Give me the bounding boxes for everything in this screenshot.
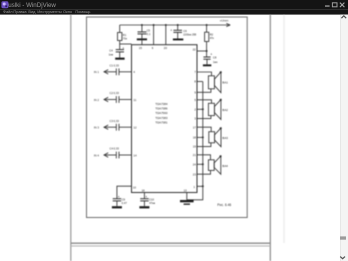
wire: R1 to C7 node [119,41,121,50]
capacitor C4 (1uF) [116,50,124,52]
svg-text:Файл: Файл [3,9,13,14]
wire: pin 22 stub [197,50,207,52]
wire: C6 to ground [177,32,179,38]
IC type list [155,102,168,124]
svg-text:24: 24 [193,162,197,166]
svg-text:R2: R2 [210,33,214,37]
pin 10 branch [117,186,132,206]
resistor R1 [118,33,122,41]
svg-text:+: + [118,195,120,199]
wire pin8 to bus [197,81,203,83]
svg-text:C4 0,33: C4 0,33 [110,147,120,151]
right side pin numbers [193,70,197,176]
svg-text:IN 4: IN 4 [94,153,100,157]
wire pin13 down [186,193,188,200]
svg-text:Помощь: Помощь [75,9,90,14]
scrollbar thumb [340,236,346,239]
svg-text:+Uпит.: +Uпит. [220,19,230,23]
wire pin18 to bus [197,136,203,138]
svg-text:C4: C4 [109,49,113,53]
svg-text:0,47: 0,47 [122,201,128,205]
speaker BA4 wiring [197,155,211,174]
minimize button [325,5,330,6]
ground (C10) [139,206,149,208]
junction dots on rail [141,24,208,26]
close button [340,3,345,8]
pin numbers top [139,46,196,51]
speaker BA3 wiring [197,127,211,146]
svg-text:23: 23 [193,172,197,176]
capacitor C2 [115,96,117,103]
svg-text:IN 3: IN 3 [94,126,100,130]
wire: C6 riser [177,25,179,30]
capacitor C10 [140,199,149,201]
speaker BA1 wiring [197,72,212,92]
page 2 top border [71,245,270,247]
svg-text:IN 2: IN 2 [94,98,100,102]
pin 16 branch [143,193,145,199]
input IN3 [104,124,132,131]
svg-text:22: 22 [193,47,197,51]
input IN2 [104,96,132,103]
ground (C7) [115,58,124,60]
wire IN4 [104,154,116,156]
svg-text:11: 11 [133,98,136,102]
input IN1 [104,68,132,75]
wire C9 to ground [116,201,118,206]
svg-text:TDA7560: TDA7560 [155,111,168,115]
svg-text:C2 0,33: C2 0,33 [110,91,120,95]
node (pin22/R2/C8) [206,50,208,52]
ground (main) [180,200,194,202]
capacitor C5 [138,32,147,34]
wire pin9 to BA1 bottom [197,89,211,93]
resistor R2 [205,32,209,41]
wire pin3 to BA2 bottom [197,116,211,119]
svg-text:C10: C10 [149,197,154,201]
wire pin5 to BA2 top [197,100,212,104]
wire pin2 to bus [197,108,203,110]
wire: +U supply rail [120,24,230,26]
svg-text:17: 17 [193,125,197,129]
speaker BA3 [209,128,221,147]
scrollbar down arrow [340,257,345,259]
svg-text:C6: C6 [183,29,187,33]
svg-text:C9: C9 [122,197,126,201]
svg-text:14: 14 [133,153,137,157]
page right border [269,15,271,261]
svg-text:13: 13 [184,189,188,193]
svg-text:47мк: 47мк [149,201,156,205]
capacitor C4 [115,152,117,159]
svg-text:C3 0,33: C3 0,33 [110,119,120,123]
wire pin1 to ground [187,186,203,200]
svg-text:TDA7386: TDA7386 [155,107,168,111]
wire: R2 riser [206,25,208,32]
capacitor C8 [203,57,210,59]
document view area [71,15,284,261]
svg-text:+: + [170,28,172,32]
scrollbar track [340,15,348,261]
svg-text:Вид: Вид [28,9,36,14]
wire IN1 [104,71,116,73]
capacitor C1 [115,68,117,75]
wire: C5 riser [141,25,143,32]
wire pin7 to BA1 top [197,72,212,76]
svg-text:TDA7383: TDA7383 [155,116,168,120]
wire: C8 to ground [206,59,208,64]
svg-text:BA4: BA4 [222,164,228,168]
svg-text:Правка: Правка [13,9,27,14]
speaker BA4 [208,156,220,174]
svg-text:TDA7381: TDA7381 [155,120,168,124]
svg-text:19: 19 [193,145,197,149]
svg-text:+: + [122,46,124,50]
svg-text:BA3: BA3 [222,136,228,140]
svg-text:IN 1: IN 1 [94,70,100,74]
wire: node to IC [120,43,132,45]
ground (C9) [112,206,122,208]
app icon [1,1,8,8]
pin 13 ground branch [187,186,203,200]
ground (C5) [137,38,147,40]
svg-text:Рис. 6.46: Рис. 6.46 [217,203,231,207]
svg-text:0,1: 0,1 [147,32,151,36]
svg-text:Окно: Окно [63,9,72,14]
svg-text:18: 18 [193,136,197,140]
wire pin21 to BA4 top [197,155,211,160]
wire pin17 to BA3 top [197,127,211,132]
wire IN3 [104,126,116,128]
svg-text:C5: C5 [147,29,151,33]
capacitor C9 [113,199,122,201]
wire pin10 [117,186,132,198]
wire: R1 riser [119,25,121,33]
wire pin19 to BA3 bottom [197,143,211,147]
output bus [202,82,204,187]
svg-text:uslki - WinDjView: uslki - WinDjView [8,2,56,9]
wire: pin 15 stub [141,40,143,45]
svg-text:TDA7384: TDA7384 [155,102,168,106]
svg-text:+: + [145,195,147,199]
svg-text:BA2: BA2 [222,108,228,112]
svg-text:10: 10 [133,186,137,190]
wire IN2 [104,99,116,101]
wire pin24 to bus [197,163,203,165]
capacitor C3 [115,124,117,131]
faint page shadow [283,15,285,243]
svg-text:C8: C8 [213,56,217,60]
page 1 bottom border [71,242,270,244]
ground (C6) [173,39,183,41]
wire: C5 to ground [141,34,143,39]
speaker BA2 [208,100,221,120]
wire pin23 to BA4 bottom [197,170,211,174]
svg-text:2200мк 25В: 2200мк 25В [183,33,196,36]
speaker BA2 wiring [197,100,212,119]
title bar [0,0,348,10]
svg-text:Инструменты: Инструменты [37,9,61,14]
wire: R2 to node [206,42,208,57]
scrollbar up arrow [341,16,346,18]
svg-text:BA1: BA1 [222,80,228,84]
speaker BA1 [208,72,221,93]
wire: pin 20 riser [165,25,167,45]
wire: pin 6 riser [153,25,155,45]
restore button [332,3,337,7]
svg-text:20: 20 [164,46,168,50]
arrowhead +U [226,23,230,26]
svg-text:12: 12 [133,126,137,130]
svg-text:15: 15 [139,46,143,50]
menu bar [0,10,348,15]
svg-text:16: 16 [142,189,146,193]
input IN4 [104,152,132,159]
page left border [70,15,72,261]
ground (C8) [203,64,211,66]
svg-text:21: 21 [193,153,197,157]
op-amp U1 IC box [132,45,198,193]
svg-text:C1 0,33: C1 0,33 [110,63,120,67]
figure frame [87,17,248,218]
capacitor C6 [173,30,182,32]
menu items [3,9,90,14]
